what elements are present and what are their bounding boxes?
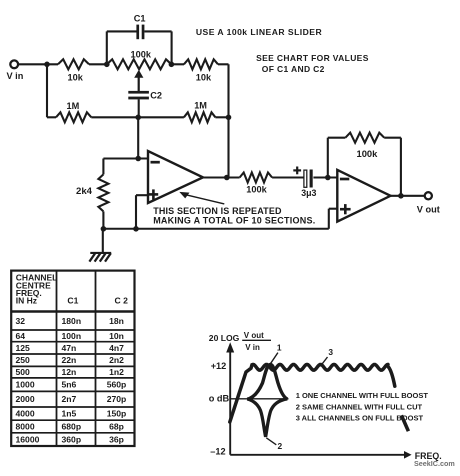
svg-text:5n6: 5n6 xyxy=(62,380,77,390)
svg-text:100k: 100k xyxy=(246,185,267,195)
svg-text:100k: 100k xyxy=(131,50,152,60)
svg-text:100k: 100k xyxy=(357,148,379,159)
svg-text:18n: 18n xyxy=(109,316,124,326)
svg-text:10n: 10n xyxy=(109,331,124,341)
svg-text:680p: 680p xyxy=(62,422,82,432)
svg-text:16000: 16000 xyxy=(16,434,40,444)
svg-text:+12: +12 xyxy=(211,361,227,371)
svg-text:C2: C2 xyxy=(150,91,162,101)
svg-text:1000: 1000 xyxy=(16,380,35,390)
svg-text:V out: V out xyxy=(417,205,440,215)
svg-text:C1: C1 xyxy=(134,14,146,24)
svg-text:2k4: 2k4 xyxy=(76,186,93,197)
svg-text:1M: 1M xyxy=(194,101,207,111)
svg-text:–12: –12 xyxy=(210,447,225,457)
svg-text:180n: 180n xyxy=(62,316,82,326)
svg-text:1n2: 1n2 xyxy=(109,367,124,377)
svg-text:THIS SECTION IS REPEATED: THIS SECTION IS REPEATED xyxy=(153,206,282,216)
svg-text:MAKING A TOTAL OF 10 SECTIONS.: MAKING A TOTAL OF 10 SECTIONS. xyxy=(153,215,315,225)
svg-text:68p: 68p xyxy=(109,422,124,432)
svg-text:32: 32 xyxy=(16,316,26,326)
svg-text:4000: 4000 xyxy=(16,409,35,419)
svg-text:o dB: o dB xyxy=(209,393,230,403)
svg-text:8000: 8000 xyxy=(16,422,35,432)
svg-text:500: 500 xyxy=(16,367,31,377)
svg-text:560p: 560p xyxy=(107,380,127,390)
svg-text:36p: 36p xyxy=(109,434,124,444)
svg-text:2n2: 2n2 xyxy=(109,355,124,365)
svg-text:10k: 10k xyxy=(196,72,212,82)
svg-text:OF C1 AND C2: OF C1 AND C2 xyxy=(262,64,325,74)
svg-text:V in: V in xyxy=(7,71,24,81)
svg-text:1 ONE CHANNEL WITH FULL BOOST: 1 ONE CHANNEL WITH FULL BOOST xyxy=(296,391,429,400)
svg-text:2 SAME CHANNEL WITH FULL CUT: 2 SAME CHANNEL WITH FULL CUT xyxy=(296,402,423,411)
svg-text:100n: 100n xyxy=(62,331,82,341)
svg-text:2000: 2000 xyxy=(16,394,35,404)
svg-text:1n5: 1n5 xyxy=(62,409,77,419)
svg-text:22n: 22n xyxy=(62,355,77,365)
svg-text:4n7: 4n7 xyxy=(109,343,124,353)
svg-text:64: 64 xyxy=(16,331,26,341)
svg-text:10k: 10k xyxy=(68,73,84,83)
svg-text:V out: V out xyxy=(244,331,264,340)
svg-text:USE A 100k LINEAR SLIDER: USE A 100k LINEAR SLIDER xyxy=(196,27,323,37)
svg-text:2n7: 2n7 xyxy=(62,394,77,404)
svg-text:SEE CHART FOR VALUES: SEE CHART FOR VALUES xyxy=(256,53,369,63)
svg-text:SeekIC.com: SeekIC.com xyxy=(414,459,455,468)
svg-text:360p: 360p xyxy=(62,434,82,444)
svg-text:IN Hz: IN Hz xyxy=(16,296,37,306)
svg-text:3: 3 xyxy=(328,347,333,357)
svg-text:20 LOG: 20 LOG xyxy=(209,333,240,343)
svg-text:150p: 150p xyxy=(107,409,127,419)
svg-text:1M: 1M xyxy=(67,101,80,111)
svg-text:270p: 270p xyxy=(107,394,127,404)
svg-text:C 2: C 2 xyxy=(115,296,129,306)
svg-text:12n: 12n xyxy=(62,367,77,377)
svg-text:47n: 47n xyxy=(62,343,77,353)
svg-text:C1: C1 xyxy=(67,296,78,306)
svg-text:3μ3: 3μ3 xyxy=(301,188,316,198)
svg-text:V in: V in xyxy=(245,343,260,352)
svg-text:250: 250 xyxy=(16,355,31,365)
svg-text:1: 1 xyxy=(277,343,282,353)
svg-text:125: 125 xyxy=(16,343,31,353)
svg-text:2: 2 xyxy=(278,441,283,451)
